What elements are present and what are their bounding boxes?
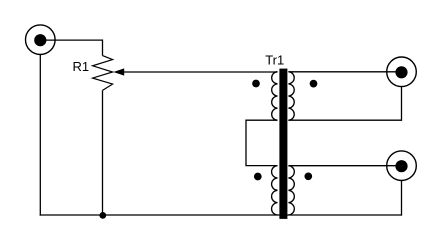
wire: left connector pin to R1 top corner — [40, 39, 102, 41]
wire: wiper line to transformer primary top — [123, 71, 278, 73]
connector J-left (input jack, circle with center pin) — [26, 25, 56, 55]
wire: left connector down to bottom rail — [39, 54, 41, 215]
svg-text:R1: R1 — [73, 59, 90, 74]
svg-text:Tr1: Tr1 — [265, 53, 284, 68]
phase dot, lower-right winding — [304, 172, 312, 180]
wire: bottom-right connector shell down to bottom rail — [401, 181, 403, 216]
junction: R1 bottom lead on bottom rail — [99, 212, 106, 219]
wire: upper-right winding bottom, right then up to top-right connector shell — [288, 87, 401, 121]
wire: R1 top lead — [102, 39, 104, 55]
wiper arrow of R1 (points left at zigzag) — [114, 69, 124, 75]
phase dot, upper-left winding — [252, 80, 260, 88]
wire: bottom rail — [40, 214, 402, 216]
wire: series link, upper-left winding bottom to lower-left winding top — [246, 120, 278, 165]
resistor R1 (potentiometer body, vertical zigzag) — [93, 56, 113, 91]
transformer Tr1 winding, lower-left (primary 2) — [272, 166, 278, 215]
connector J-bottom-right (output jack) — [387, 151, 417, 181]
transformer Tr1 winding, upper-right (secondary 1) — [288, 72, 294, 121]
wire: upper-right winding top to top-right connector pin — [288, 71, 401, 73]
wire: lower-right winding top to bottom-right connector pin — [288, 165, 401, 167]
transformer Tr1 winding, upper-left (primary) — [272, 72, 278, 121]
phase dot, lower-left winding — [254, 173, 262, 181]
phase dot, upper-right winding — [310, 80, 318, 88]
wire: R1 bottom lead down to bottom rail — [102, 90, 104, 215]
transformer Tr1 winding, lower-right (secondary 2) — [288, 166, 294, 215]
transformer Tr1 core — [279, 69, 287, 219]
connector J-top-right (output jack) — [387, 57, 417, 87]
